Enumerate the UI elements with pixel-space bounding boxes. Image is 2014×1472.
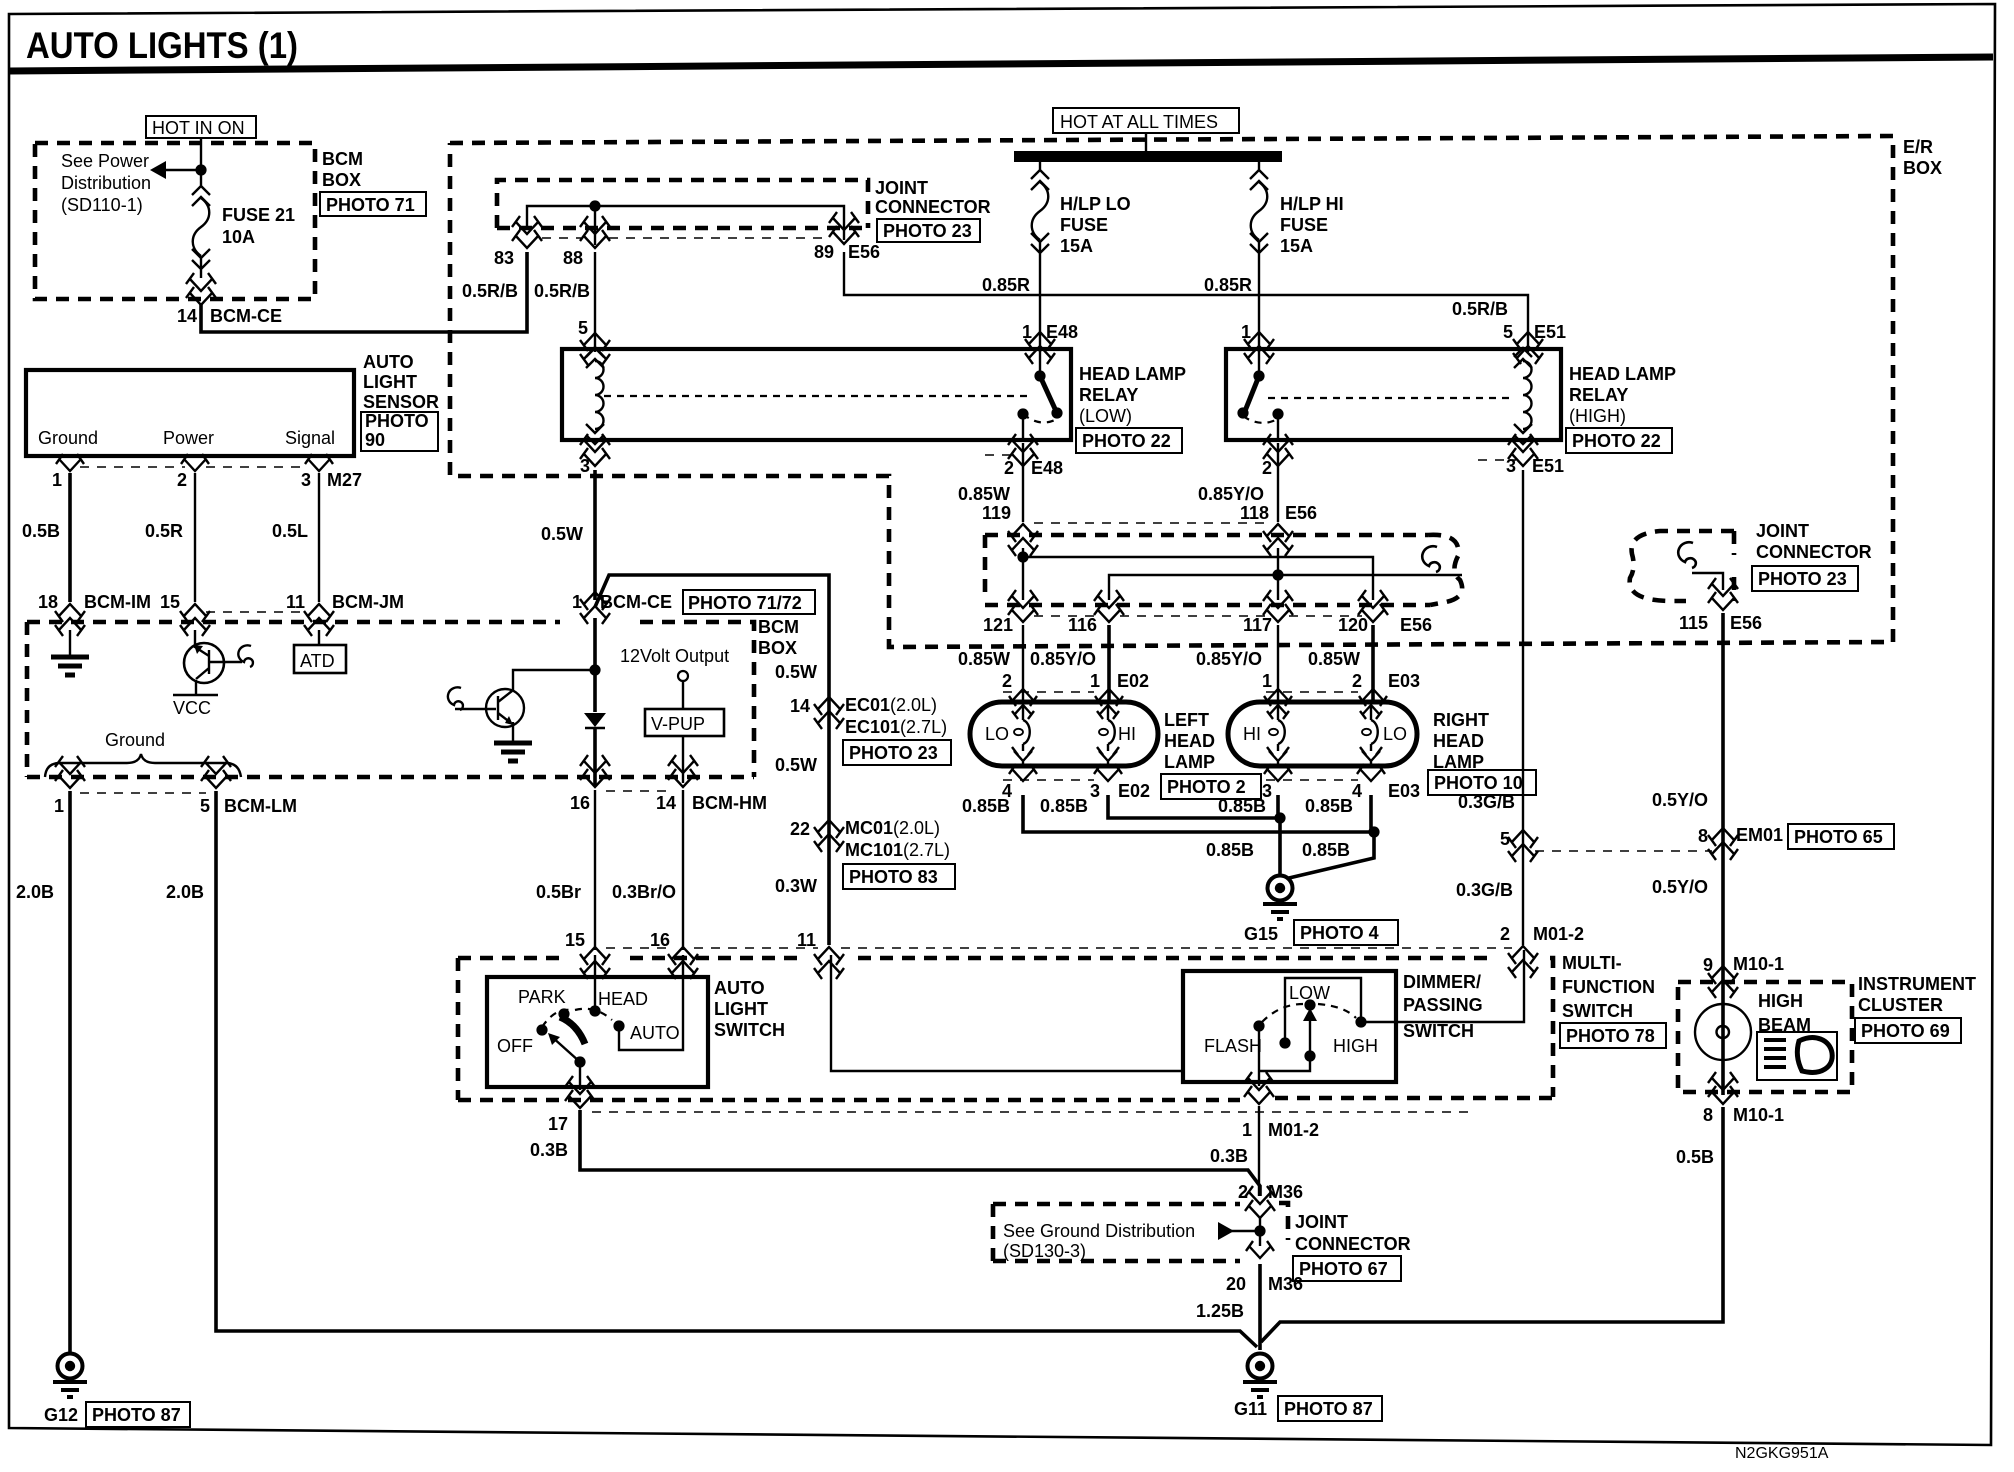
- svg-text:AUTO: AUTO: [714, 978, 765, 998]
- 0.5W wire from relay pin3 down to BCM-CE: [593, 470, 597, 600]
- wire node2 left to 116 and right stub: [1109, 575, 1462, 600]
- svg-text:0.5W: 0.5W: [775, 755, 817, 775]
- svg-text:PHOTO 22: PHOTO 22: [1572, 431, 1661, 451]
- svg-text:HEAD: HEAD: [598, 989, 648, 1009]
- wire 11 from BCM to dimmer: [831, 955, 1183, 1071]
- svg-text:See Power: See Power: [61, 151, 149, 171]
- svg-text:G15: G15: [1244, 924, 1278, 944]
- svg-text:2: 2: [1238, 1182, 1248, 1202]
- svg-text:MULTI-: MULTI-: [1562, 953, 1622, 973]
- svg-text:5: 5: [1500, 829, 1510, 849]
- svg-text:INSTRUMENT: INSTRUMENT: [1858, 974, 1976, 994]
- squiggle inside: [1422, 546, 1440, 572]
- HIGH relay pin2 connector: [1263, 434, 1293, 466]
- wire sensor signal to BCM-JM 11: [318, 473, 320, 602]
- svg-text:16: 16: [570, 793, 590, 813]
- G15 ground: [1263, 876, 1297, 920]
- 0.5Y/O wire down to EM01: [1721, 613, 1725, 1095]
- svg-text:2: 2: [1500, 924, 1510, 944]
- svg-text:M01-2: M01-2: [1268, 1120, 1319, 1140]
- connector dashed line E56 row: [1034, 615, 1362, 617]
- svg-text:88: 88: [563, 248, 583, 268]
- svg-text:RELAY: RELAY: [1569, 385, 1628, 405]
- svg-text:PARK: PARK: [518, 987, 566, 1007]
- svg-text:0.5W: 0.5W: [775, 662, 817, 682]
- svg-text:3: 3: [301, 470, 311, 490]
- wire 120 to right lamp LO: [1371, 625, 1375, 704]
- high beam indicator icon: [1757, 1032, 1837, 1080]
- wire 116 to left lamp HI: [1107, 625, 1111, 704]
- svg-text:2: 2: [1262, 458, 1272, 478]
- dashed box: [497, 180, 868, 228]
- svg-text:90: 90: [365, 430, 385, 450]
- svg-text:0.5R/B: 0.5R/B: [534, 281, 590, 301]
- svg-text:17: 17: [548, 1114, 568, 1134]
- wire pin4 E03 to G15: [1289, 795, 1374, 878]
- svg-text:Ground: Ground: [105, 730, 165, 750]
- svg-text:LIGHT: LIGHT: [363, 372, 417, 392]
- 119 E56 connector: [1008, 524, 1038, 556]
- svg-text:MC01(2.0L): MC01(2.0L): [845, 818, 940, 838]
- svg-text:SWITCH: SWITCH: [1562, 1001, 1633, 1021]
- connector pin 2 E02: [1009, 689, 1037, 706]
- svg-text:M10-1: M10-1: [1733, 1105, 1784, 1125]
- svg-text:V-PUP: V-PUP: [651, 714, 705, 734]
- connector pin 2 E03: [1359, 689, 1387, 706]
- svg-text:1: 1: [1241, 322, 1251, 342]
- wire pin5 to ground G11: [216, 791, 1257, 1347]
- svg-text:89: 89: [814, 242, 834, 262]
- svg-text:M36: M36: [1268, 1274, 1303, 1294]
- svg-text:115: 115: [1679, 613, 1708, 633]
- svg-text:CONNECTOR: CONNECTOR: [1756, 542, 1872, 562]
- svg-text:0.3B: 0.3B: [530, 1140, 568, 1160]
- svg-text:5: 5: [578, 318, 588, 338]
- connector pin 1 E03: [1264, 689, 1292, 706]
- svg-text:LEFT: LEFT: [1164, 710, 1209, 730]
- svg-text:1: 1: [1242, 1120, 1252, 1140]
- left head lamp body: [970, 702, 1158, 766]
- svg-text:M01-2: M01-2: [1533, 924, 1584, 944]
- svg-text:0.5R/B: 0.5R/B: [1452, 299, 1508, 319]
- connector pin 117 E56: [1263, 590, 1293, 622]
- 2 M01-2 connector into multifunction switch: [1508, 946, 1538, 978]
- connector pin 1 BCM-LM: [55, 756, 85, 788]
- svg-text:22: 22: [790, 819, 810, 839]
- svg-text:M10-1: M10-1: [1733, 954, 1784, 974]
- wire 121 to left lamp LO: [1022, 625, 1024, 704]
- left lamp HI filament: [1097, 705, 1119, 764]
- svg-text:SENSOR: SENSOR: [363, 392, 439, 412]
- svg-text:DIMMER/: DIMMER/: [1403, 972, 1481, 992]
- bottom pins 15 16 11: [580, 947, 610, 979]
- svg-text:0.85Y/O: 0.85Y/O: [1030, 649, 1096, 669]
- svg-text:VCC: VCC: [173, 698, 211, 718]
- fuse 21: [192, 178, 210, 278]
- wire pin2 down to 119: [1022, 443, 1024, 522]
- svg-text:JOINT: JOINT: [1295, 1212, 1348, 1232]
- svg-text:0.85W: 0.85W: [958, 484, 1010, 504]
- svg-text:AUTO: AUTO: [630, 1023, 680, 1043]
- svg-text:10A: 10A: [222, 227, 255, 247]
- svg-text:E56: E56: [1400, 615, 1432, 635]
- svg-text:15: 15: [565, 930, 585, 950]
- svg-text:RIGHT: RIGHT: [1433, 710, 1489, 730]
- BCM box dashed: [27, 622, 754, 777]
- DIMMER/PASSING SWITCH box: [1183, 971, 1396, 1082]
- svg-text:PHOTO 4: PHOTO 4: [1300, 923, 1379, 943]
- svg-text:See Ground Distribution: See Ground Distribution: [1003, 1221, 1195, 1241]
- switch low relay: [1039, 349, 1041, 374]
- MC01 connector: [814, 820, 844, 852]
- svg-text:AUTO LIGHTS (1): AUTO LIGHTS (1): [26, 25, 298, 66]
- svg-text:N2GKG951A: N2GKG951A: [1735, 1445, 1829, 1462]
- svg-text:0.85R: 0.85R: [1204, 275, 1252, 295]
- svg-text:HOT AT ALL TIMES: HOT AT ALL TIMES: [1060, 112, 1218, 132]
- H/LP LO fuse: [1031, 162, 1049, 262]
- svg-text:0.5Y/O: 0.5Y/O: [1652, 877, 1708, 897]
- svg-text:0.85B: 0.85B: [1305, 796, 1353, 816]
- svg-text:8: 8: [1698, 826, 1708, 846]
- connector pin 1 E02: [1095, 689, 1123, 706]
- svg-text:2: 2: [177, 470, 187, 490]
- svg-text:0.85W: 0.85W: [1308, 649, 1360, 669]
- connector pin 3 E02: [1094, 764, 1122, 781]
- svg-text:Ground: Ground: [38, 428, 98, 448]
- 118 E56 connector: [1263, 524, 1293, 556]
- diode: [584, 713, 606, 727]
- svg-text:18: 18: [38, 592, 58, 612]
- squiggle right of transistor: [238, 645, 253, 667]
- wire H/LP HI fuse to relay pin 1: [1258, 262, 1260, 352]
- connector dashed line M27: [80, 466, 308, 468]
- svg-text:HI: HI: [1118, 724, 1136, 744]
- LOW jumper box wire: [1285, 978, 1361, 1043]
- svg-text:0.5R/B: 0.5R/B: [462, 281, 518, 301]
- svg-text:2: 2: [1002, 671, 1012, 691]
- connector pin 4 E02: [1009, 764, 1037, 781]
- svg-text:2: 2: [1352, 671, 1362, 691]
- svg-text:(HIGH): (HIGH): [1569, 406, 1626, 426]
- svg-text:ATD: ATD: [300, 651, 335, 671]
- svg-text:4: 4: [1352, 781, 1362, 801]
- svg-text:1: 1: [54, 796, 64, 816]
- svg-text:PHOTO 23: PHOTO 23: [1758, 569, 1847, 589]
- svg-text:0.3G/B: 0.3G/B: [1458, 792, 1515, 812]
- svg-text:E56: E56: [1730, 613, 1762, 633]
- svg-text:RELAY: RELAY: [1079, 385, 1138, 405]
- connector 88: [580, 216, 610, 248]
- svg-text:BOX: BOX: [322, 170, 361, 190]
- svg-text:LO: LO: [1383, 724, 1407, 744]
- LOW relay pin2 E48: [1008, 434, 1038, 466]
- pivot down to pin 17: [579, 1062, 581, 1090]
- svg-text:G11: G11: [1234, 1399, 1267, 1419]
- svg-text:11: 11: [286, 592, 305, 612]
- svg-text:5: 5: [1503, 322, 1513, 342]
- ground under 18: [69, 630, 71, 655]
- connector pin 11 BCM-JM: [304, 604, 334, 636]
- right lamp HI filament: [1267, 705, 1289, 764]
- coil low relay: [586, 348, 604, 444]
- svg-text:83: 83: [494, 248, 514, 268]
- wire 118->117 with node: [1277, 548, 1279, 600]
- svg-text:BCM: BCM: [322, 149, 363, 169]
- connector pin 3 M27: [305, 454, 333, 471]
- H/LP HI fuse: [1250, 162, 1268, 262]
- svg-text:EC01(2.0L): EC01(2.0L): [845, 695, 937, 715]
- wire pin2 down to 118: [1277, 443, 1279, 522]
- node ground bus upper: [1274, 812, 1285, 823]
- svg-text:14: 14: [177, 306, 197, 326]
- connector pin 15: [180, 604, 210, 636]
- svg-text:5: 5: [200, 796, 210, 816]
- svg-text:JOINT: JOINT: [1756, 521, 1809, 541]
- connector pin 4 E03: [1357, 764, 1385, 781]
- svg-text:0.5W: 0.5W: [541, 524, 583, 544]
- svg-text:PHOTO: PHOTO: [365, 411, 429, 431]
- svg-text:(SD110-1): (SD110-1): [61, 195, 143, 215]
- arrow pivot to LOW: [1309, 1018, 1311, 1056]
- joint connector M36: [993, 1203, 1288, 1261]
- arrow from pivot to OFF: [551, 1036, 580, 1062]
- G12 ground: [53, 1354, 87, 1398]
- svg-text:BCM-LM: BCM-LM: [224, 796, 297, 816]
- BCM-CE pin1 connector: [580, 592, 610, 624]
- svg-text:118: 118: [1240, 503, 1269, 523]
- svg-text:HEAD: HEAD: [1433, 731, 1484, 751]
- svg-text:Power: Power: [163, 428, 214, 448]
- svg-text:G12: G12: [44, 1405, 78, 1425]
- connector pin 2 M27: [181, 454, 209, 471]
- left lamp LO filament: [1012, 705, 1034, 764]
- svg-text:E03: E03: [1388, 671, 1420, 691]
- connector dashed lines E02 E03: [1003, 691, 1358, 693]
- wire H/LP LO fuse to relay pin 1 E48: [1039, 262, 1041, 352]
- svg-text:0.85Y/O: 0.85Y/O: [1196, 649, 1262, 669]
- svg-text:119: 119: [982, 503, 1011, 523]
- squiggle: [1678, 542, 1696, 568]
- svg-text:0.5L: 0.5L: [272, 521, 308, 541]
- AUTO LIGHT SWITCH box: [487, 977, 708, 1087]
- svg-text:0.85R: 0.85R: [982, 275, 1030, 295]
- svg-text:0.85W: 0.85W: [958, 649, 1010, 669]
- svg-text:2.0B: 2.0B: [166, 882, 204, 902]
- connector pin 116 E56: [1094, 590, 1124, 622]
- svg-text:PHOTO 71/72: PHOTO 71/72: [688, 593, 802, 613]
- connector pin 1 M27: [56, 454, 84, 471]
- svg-text:E51: E51: [1534, 322, 1566, 342]
- svg-text:E02: E02: [1117, 671, 1149, 691]
- 8 M10-1: [1708, 1072, 1738, 1104]
- BCM box (fuse 21) dashed outline: [35, 143, 315, 299]
- svg-text:BCM-CE: BCM-CE: [600, 592, 672, 612]
- transistor at 15 (VCC): [194, 630, 196, 648]
- connector 83: [512, 216, 542, 248]
- svg-text:1: 1: [572, 592, 582, 612]
- wire from HOT IN ON down: [200, 138, 202, 178]
- wire 88 down to relay low pin5: [594, 252, 596, 352]
- svg-text:PHOTO 69: PHOTO 69: [1861, 1021, 1950, 1041]
- svg-text:2: 2: [1004, 458, 1014, 478]
- HIGH relay pin1: [1244, 332, 1274, 364]
- svg-text:M27: M27: [327, 470, 362, 490]
- connector pin 5 BCM-LM: [201, 756, 231, 788]
- svg-text:FUSE: FUSE: [1060, 215, 1108, 235]
- right lamp LO filament: [1360, 705, 1382, 764]
- svg-text:0.3Br/O: 0.3Br/O: [612, 882, 676, 902]
- svg-text:FUSE: FUSE: [1280, 215, 1328, 235]
- connector 14 BCM-CE: [186, 273, 216, 305]
- wire down from connector to node: [593, 618, 597, 785]
- svg-text:8: 8: [1703, 1105, 1713, 1125]
- switch high relay: [1258, 349, 1260, 374]
- svg-text:LAMP: LAMP: [1164, 752, 1215, 772]
- svg-text:121: 121: [983, 615, 1013, 635]
- svg-text:0.5B: 0.5B: [1676, 1147, 1714, 1167]
- wire 89 down right to E51 pin 5: [844, 252, 1528, 352]
- svg-text:E/R: E/R: [1903, 137, 1933, 157]
- connector 89: [829, 212, 859, 244]
- squiggle left of transistor2: [448, 687, 463, 710]
- svg-text:11: 11: [797, 930, 816, 950]
- svg-text:0.5Br: 0.5Br: [536, 882, 581, 902]
- transistor 2 (PNP to ground): [513, 670, 595, 690]
- LOW relay pin3 connector (coil bottom): [580, 434, 610, 466]
- svg-text:PHOTO 65: PHOTO 65: [1794, 827, 1883, 847]
- svg-text:3: 3: [580, 456, 590, 476]
- connector dashed line BCM-LM: [80, 792, 206, 794]
- svg-text:PHOTO 71: PHOTO 71: [326, 195, 415, 215]
- svg-text:PHOTO 22: PHOTO 22: [1082, 431, 1171, 451]
- svg-text:(LOW): (LOW): [1079, 406, 1132, 426]
- wire node1 right to 120: [1023, 557, 1373, 600]
- svg-text:E02: E02: [1118, 781, 1150, 801]
- svg-text:14: 14: [790, 696, 810, 716]
- svg-text:MC101(2.7L): MC101(2.7L): [845, 840, 950, 860]
- svg-text:1: 1: [1090, 671, 1100, 691]
- wires down to switch: [594, 790, 596, 950]
- wire 119->121 with node: [1022, 548, 1024, 600]
- svg-text:OFF: OFF: [497, 1036, 533, 1056]
- svg-text:14: 14: [656, 793, 676, 813]
- svg-text:0.5R: 0.5R: [145, 521, 183, 541]
- svg-text:0.85B: 0.85B: [1302, 840, 1350, 860]
- svg-text:1: 1: [1022, 322, 1032, 342]
- svg-text:Signal: Signal: [285, 428, 335, 448]
- svg-text:BCM: BCM: [758, 617, 799, 637]
- svg-text:0.5Y/O: 0.5Y/O: [1652, 790, 1708, 810]
- E48 pin 1 connector: [1025, 332, 1055, 364]
- svg-text:SWITCH: SWITCH: [1403, 1021, 1474, 1041]
- svg-text:(SD130-3): (SD130-3): [1003, 1241, 1086, 1261]
- svg-text:15: 15: [160, 592, 180, 612]
- dashed actuation link: [1268, 397, 1514, 399]
- svg-text:12Volt Output: 12Volt Output: [620, 646, 729, 666]
- svg-text:3: 3: [1506, 456, 1516, 476]
- svg-text:0.5B: 0.5B: [22, 521, 60, 541]
- svg-text:HEAD LAMP: HEAD LAMP: [1569, 364, 1676, 384]
- svg-text:BOX: BOX: [1903, 158, 1942, 178]
- svg-text:117: 117: [1243, 615, 1272, 635]
- thick 0.5W wire up-right-down to EC01 chain: [595, 575, 829, 945]
- svg-text:FUNCTION: FUNCTION: [1562, 977, 1655, 997]
- svg-text:0.85B: 0.85B: [1206, 840, 1254, 860]
- svg-text:FUSE 21: FUSE 21: [222, 205, 295, 225]
- wires: 15->HEAD, 16->AUTO internal: [594, 955, 596, 1011]
- svg-text:0.85B: 0.85B: [962, 796, 1010, 816]
- wire sensor power to BCM 15: [194, 473, 196, 602]
- thick blade arc: [560, 1017, 585, 1044]
- svg-text:0.85Y/O: 0.85Y/O: [1198, 484, 1264, 504]
- svg-text:JOINT: JOINT: [875, 178, 928, 198]
- svg-text:20: 20: [1226, 1274, 1246, 1294]
- svg-text:CONNECTOR: CONNECTOR: [875, 197, 991, 217]
- HOT IN ON label box: [146, 116, 256, 138]
- svg-text:BCM-HM: BCM-HM: [692, 793, 767, 813]
- connector pin 18 BCM-IM: [55, 604, 85, 636]
- svg-text:PHOTO 78: PHOTO 78: [1566, 1026, 1655, 1046]
- svg-text:FLASH: FLASH: [1204, 1036, 1262, 1056]
- wire pin4 E02 to ground node: [1023, 795, 1374, 832]
- svg-text:1.25B: 1.25B: [1196, 1301, 1244, 1321]
- svg-text:E56: E56: [1285, 503, 1317, 523]
- svg-text:HIGH: HIGH: [1758, 991, 1803, 1011]
- svg-text:0.85B: 0.85B: [1218, 796, 1266, 816]
- svg-text:E48: E48: [1046, 322, 1078, 342]
- svg-text:BCM-CE: BCM-CE: [210, 306, 282, 326]
- svg-text:E03: E03: [1388, 781, 1420, 801]
- svg-text:E51: E51: [1532, 456, 1564, 476]
- svg-text:9: 9: [1703, 955, 1713, 975]
- svg-text:0.3W: 0.3W: [775, 876, 817, 896]
- wire pin1 to ground G12: [68, 791, 72, 1352]
- svg-text:HIGH: HIGH: [1333, 1036, 1378, 1056]
- svg-text:E56: E56: [848, 242, 880, 262]
- svg-text:CONNECTOR: CONNECTOR: [1295, 1234, 1411, 1254]
- svg-text:SWITCH: SWITCH: [714, 1020, 785, 1040]
- svg-text:BCM-JM: BCM-JM: [332, 592, 404, 612]
- svg-text:PHOTO 23: PHOTO 23: [883, 221, 972, 241]
- svg-text:M36: M36: [1268, 1182, 1303, 1202]
- svg-text:EM01: EM01: [1736, 825, 1783, 845]
- EC01 connector on 829 wire: [814, 697, 844, 729]
- svg-text:PASSING: PASSING: [1403, 995, 1483, 1015]
- 1 M01-2 connector: [1244, 1072, 1274, 1104]
- svg-text:PHOTO 83: PHOTO 83: [849, 867, 938, 887]
- internal bus wire: [527, 206, 844, 240]
- dashed actuation link: [604, 395, 1032, 397]
- coil high relay: [1514, 348, 1532, 444]
- svg-text:PHOTO 10: PHOTO 10: [1434, 773, 1523, 793]
- svg-text:0.3G/B: 0.3G/B: [1456, 880, 1513, 900]
- pins 16 / 14 BCM-HM at bottom of BCM box: [580, 755, 610, 787]
- svg-text:15A: 15A: [1060, 236, 1093, 256]
- svg-text:EC101(2.7L): EC101(2.7L): [845, 717, 947, 737]
- svg-text:H/LP HI: H/LP HI: [1280, 194, 1344, 214]
- connector dashed lines E02 E03 bottom: [1003, 779, 1358, 781]
- node 88: [589, 200, 600, 211]
- svg-text:2.0B: 2.0B: [16, 882, 54, 902]
- node at fuse top: [195, 164, 206, 175]
- svg-text:BCM-IM: BCM-IM: [84, 592, 151, 612]
- svg-text:1: 1: [52, 470, 62, 490]
- svg-text:HEAD: HEAD: [1164, 731, 1215, 751]
- wire pin3 E02 to ground node: [1108, 795, 1280, 818]
- svg-text:HOT IN ON: HOT IN ON: [152, 118, 245, 138]
- svg-text:15A: 15A: [1280, 236, 1313, 256]
- node ground bus lower: [1368, 826, 1379, 837]
